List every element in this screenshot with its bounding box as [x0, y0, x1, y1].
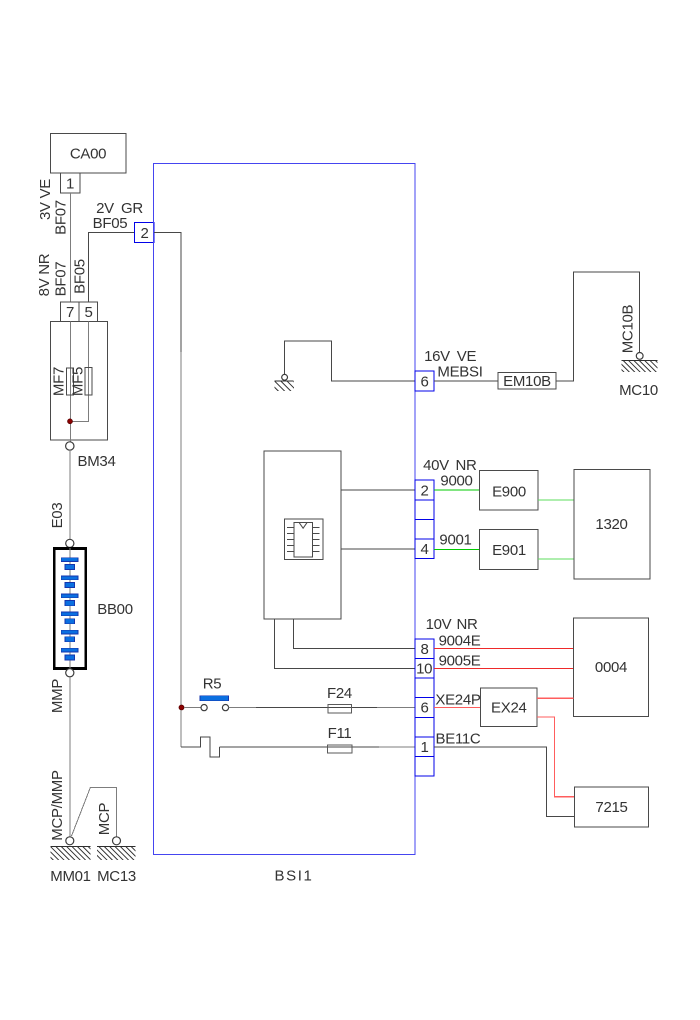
box EX24: [481, 688, 537, 727]
svg-text:6: 6: [420, 700, 428, 717]
svg-text:16V: 16V: [424, 348, 450, 365]
wire BM34 to BB00: [69, 450, 71, 539]
box E900: [479, 470, 538, 510]
svg-text:F11: F11: [328, 725, 352, 742]
wire module to pin 10: [275, 619, 415, 668]
svg-text:MC13: MC13: [97, 868, 136, 885]
pin block 2/4 of BSI: [415, 480, 434, 558]
svg-text:BM34: BM34: [78, 453, 116, 470]
svg-text:4: 4: [420, 541, 428, 558]
svg-text:5: 5: [84, 304, 92, 321]
box EM10B: [498, 373, 556, 390]
wire pin6 to EM10B: [434, 380, 498, 382]
svg-text:1320: 1320: [595, 516, 627, 533]
svg-text:MF5: MF5: [70, 367, 87, 396]
wire module to pin 2: [341, 489, 415, 491]
svg-text:8: 8: [420, 641, 428, 658]
svg-text:CA00: CA00: [70, 146, 106, 163]
box E901: [479, 529, 538, 569]
node circle MC13: [113, 837, 121, 845]
svg-text:F24: F24: [327, 685, 352, 702]
ground MC10: [622, 360, 658, 372]
svg-text:R5: R5: [203, 676, 222, 693]
pin 7 of BM34: [61, 302, 80, 322]
svg-text:9000: 9000: [440, 473, 472, 490]
box CA00: [51, 134, 127, 174]
fuse MF7: [67, 368, 74, 395]
svg-text:2: 2: [420, 482, 428, 499]
svg-text:2: 2: [140, 225, 148, 242]
pin block 8/10/6/1 of BSI: [415, 639, 434, 776]
svg-text:BSI1: BSI1: [275, 868, 314, 885]
ground MM01: [51, 846, 91, 860]
wire pin10 to 0004: [434, 667, 573, 669]
svg-text:BF05: BF05: [72, 259, 89, 294]
wire battery to ground MM01: [69, 677, 71, 837]
svg-text:8V NR: 8V NR: [36, 253, 53, 296]
svg-text:NR: NR: [456, 616, 478, 633]
svg-text:MCP/MMP: MCP/MMP: [49, 770, 66, 841]
wire E900 to 1320: [538, 499, 574, 501]
wire module to pin 4: [341, 548, 415, 550]
wire pin7 through MF7 to node: [70, 322, 72, 443]
svg-text:10V: 10V: [426, 616, 452, 633]
node circle battery top: [66, 539, 74, 547]
svg-text:7: 7: [66, 304, 74, 321]
wire fuse F24 to pin 6: [377, 707, 415, 709]
relay R5 blue bar: [200, 696, 229, 701]
wire pin6 to EX24: [434, 707, 481, 709]
wire pin2 to E900: [434, 489, 479, 491]
wire CA00 pin1 to BM34 pin7: [70, 193, 72, 302]
fuse MF5: [85, 368, 92, 396]
svg-text:10: 10: [416, 660, 432, 677]
wire pin4 to E901: [434, 548, 479, 550]
wire pin8 to 0004: [434, 648, 573, 650]
IC pins: [287, 528, 319, 552]
IC symbol body: [294, 522, 312, 557]
pin 6 MEBSI of BSI: [415, 371, 434, 391]
svg-text:MEBSI: MEBSI: [437, 364, 482, 381]
wire E901 to 1320: [538, 558, 574, 560]
fuse F24: [328, 704, 352, 712]
wire EX24 to 7215: [537, 717, 575, 797]
svg-text:BE11C: BE11C: [436, 731, 481, 748]
wire junction down to switch: [180, 710, 182, 747]
wire pin5 through MF5 to junction: [71, 322, 89, 422]
ground MC13: [97, 846, 135, 860]
svg-text:EX24: EX24: [491, 700, 527, 717]
svg-text:BF07: BF07: [53, 262, 70, 297]
wire junction to R5 left contact: [184, 707, 201, 709]
svg-text:MC10: MC10: [619, 382, 658, 399]
svg-text:1: 1: [66, 176, 74, 193]
svg-text:BF07: BF07: [53, 200, 70, 235]
ground inside BSI wire: [285, 341, 415, 381]
svg-text:MM01: MM01: [50, 868, 90, 885]
junction dot R5 node: [179, 705, 184, 710]
svg-text:BB00: BB00: [97, 601, 133, 618]
box 7215: [574, 787, 648, 827]
svg-text:VE: VE: [457, 348, 477, 365]
svg-text:7215: 7215: [595, 799, 627, 816]
box BM34 housing: [51, 322, 108, 441]
svg-text:XE24P: XE24P: [435, 692, 480, 709]
svg-text:MF7: MF7: [51, 367, 68, 396]
junction dot in BM34: [68, 419, 73, 424]
svg-text:EM10B: EM10B: [503, 373, 551, 390]
svg-text:9001: 9001: [439, 532, 471, 549]
svg-text:MC10B: MC10B: [620, 304, 637, 353]
wire battery internal: [69, 548, 71, 669]
wire EM10B to ground MC10: [556, 272, 640, 381]
relay R5 contacts: [201, 705, 207, 711]
node circle MC10: [636, 353, 643, 360]
svg-text:NR: NR: [455, 457, 477, 474]
wire BSI pin2 to BM34 pin5: [89, 233, 135, 303]
switch contact symbol: [181, 737, 219, 757]
IC symbol outer: [285, 519, 323, 559]
svg-text:9004E: 9004E: [439, 633, 481, 650]
fuse F11: [328, 745, 353, 753]
box BSI1: [154, 164, 415, 855]
node circle battery bottom: [66, 669, 74, 677]
ground symbol inside BSI: [274, 381, 294, 391]
svg-text:MMP: MMP: [49, 679, 66, 713]
IC notch: [299, 523, 307, 528]
wire branch to ground MC13: [72, 788, 117, 837]
box 1320: [574, 470, 650, 580]
node circle MM01: [66, 837, 74, 845]
svg-text:9005E: 9005E: [439, 653, 481, 670]
svg-text:E901: E901: [492, 542, 526, 559]
svg-text:6: 6: [420, 373, 428, 390]
node BM34 circle: [66, 442, 74, 450]
box 0004: [574, 618, 649, 717]
battery plates BB00: [61, 558, 78, 660]
svg-text:BF05: BF05: [93, 215, 128, 232]
wire R5 to fuse F24: [229, 707, 256, 709]
svg-text:E03: E03: [49, 503, 66, 529]
svg-text:3V VE: 3V VE: [37, 179, 54, 220]
ground inside BSI node circle: [282, 374, 288, 380]
pin 1 of CA00: [61, 173, 81, 193]
svg-text:0004: 0004: [595, 659, 627, 676]
pin 2 of BSI (left): [135, 223, 155, 243]
wire pin1 to 7215: [434, 747, 574, 817]
battery BB00 box: [54, 549, 85, 669]
box electronic module inside BSI: [264, 451, 341, 619]
wire switch to fuse F11 to pin 1: [220, 746, 380, 748]
svg-text:1: 1: [420, 739, 428, 756]
pin 5 of BM34: [79, 302, 98, 322]
wire BSI pin2 down to junction: [154, 233, 181, 353]
wire EX24 to 0004: [537, 697, 574, 699]
svg-text:MCP: MCP: [96, 802, 113, 835]
svg-text:E900: E900: [492, 484, 526, 501]
wire module to pin 8: [293, 619, 415, 649]
svg-text:40V: 40V: [423, 457, 449, 474]
